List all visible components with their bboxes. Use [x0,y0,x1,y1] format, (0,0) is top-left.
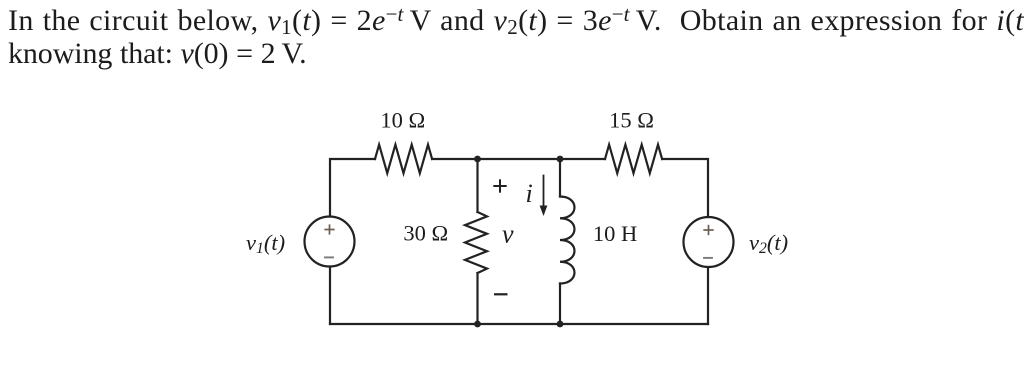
wire bottom rail [330,323,708,325]
node junction top-left [474,156,481,163]
node junction top-right [557,156,564,163]
svg-text:10 H: 10 H [593,221,637,246]
svg-text:30 Ω: 30 Ω [403,221,448,246]
wire middle branch bottom (30 ohm) [476,273,478,324]
wire top-right segment [662,159,708,217]
polarity plus sign for v [494,180,505,191]
wire middle branch top (30 ohm) [476,159,478,212]
polarity minus sign for v [495,293,506,295]
wire inductor branch top [559,159,561,197]
resistor R3 zigzag 15 ohm [605,145,662,174]
svg-text:v2(t): v2(t) [749,230,788,257]
node junction bottom-right [557,321,564,328]
wire right-bottom segment [707,267,709,324]
svg-text:v: v [502,220,514,249]
resistor R1 zigzag 10 ohm [375,145,432,174]
voltage source V1 minus sign [325,256,333,258]
resistor R2 zigzag 30 ohm [465,212,487,273]
problem text [8,6,1024,35]
voltage source V2 minus sign [704,257,712,259]
svg-text:15 Ω: 15 Ω [609,107,654,132]
wire top-left segment [330,159,375,217]
wire left-bottom segment [329,267,331,324]
voltage source V2 plus sign [704,226,713,235]
wire top-middle segment [432,158,605,160]
inductor L1 10H coil [560,197,574,284]
wire inductor branch bottom [559,284,561,325]
voltage source V1 plus sign [325,225,334,234]
voltage source V1 circle [305,217,355,267]
current arrow i [540,176,548,217]
voltage source V2 circle [684,217,734,267]
svg-text:10 Ω: 10 Ω [380,107,425,132]
svg-text:i: i [526,179,533,208]
svg-text:v1(t): v1(t) [246,230,285,257]
node junction bottom-left [474,321,481,328]
